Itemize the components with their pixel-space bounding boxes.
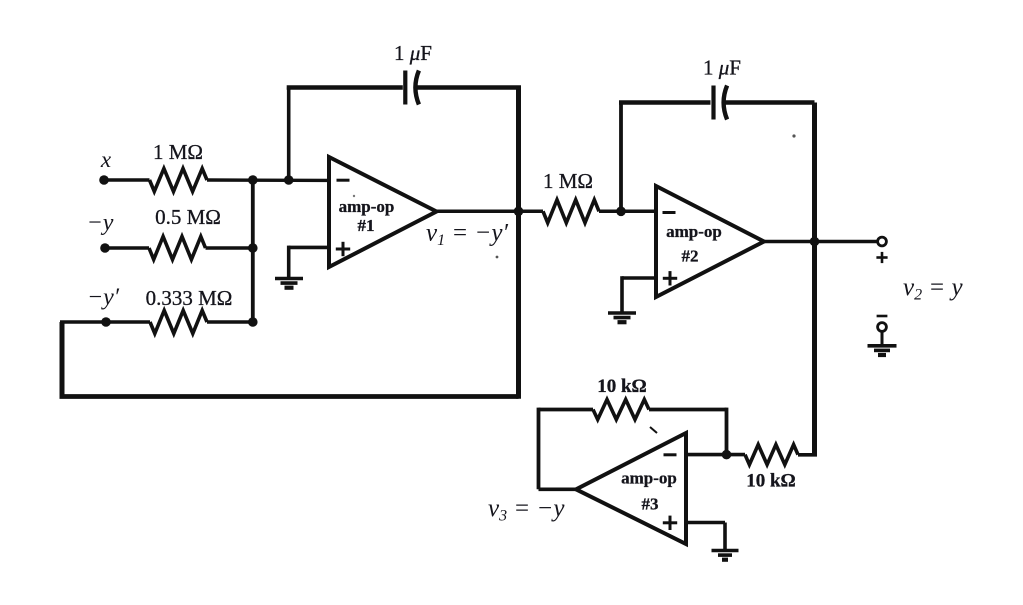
svg-text:amp-op: amp-op xyxy=(339,197,395,216)
svg-text:amp-op: amp-op xyxy=(666,222,722,241)
svg-text:1 MΩ: 1 MΩ xyxy=(543,169,593,193)
svg-text:v3 = −y: v3 = −y xyxy=(488,495,565,525)
svg-text:10 kΩ: 10 kΩ xyxy=(746,471,796,492)
svg-text:−y: −y xyxy=(87,210,114,236)
svg-text:x: x xyxy=(100,147,112,172)
svg-text:0.333 MΩ: 0.333 MΩ xyxy=(146,286,233,310)
svg-text:#1: #1 xyxy=(358,216,375,235)
svg-text:amp-op: amp-op xyxy=(621,469,677,488)
svg-text:#3: #3 xyxy=(642,495,659,514)
svg-text:0.5 MΩ: 0.5 MΩ xyxy=(155,205,221,229)
svg-text:10 kΩ: 10 kΩ xyxy=(597,376,647,397)
svg-text:−y′: −y′ xyxy=(87,285,120,311)
svg-text:v1 = −y′: v1 = −y′ xyxy=(426,220,508,250)
svg-text:1 MΩ: 1 MΩ xyxy=(153,140,203,164)
svg-text:1 μF: 1 μF xyxy=(394,41,432,65)
svg-text:#2: #2 xyxy=(682,247,699,266)
svg-text:1 μF: 1 μF xyxy=(703,56,741,80)
svg-text:v2 = y: v2 = y xyxy=(903,274,963,304)
